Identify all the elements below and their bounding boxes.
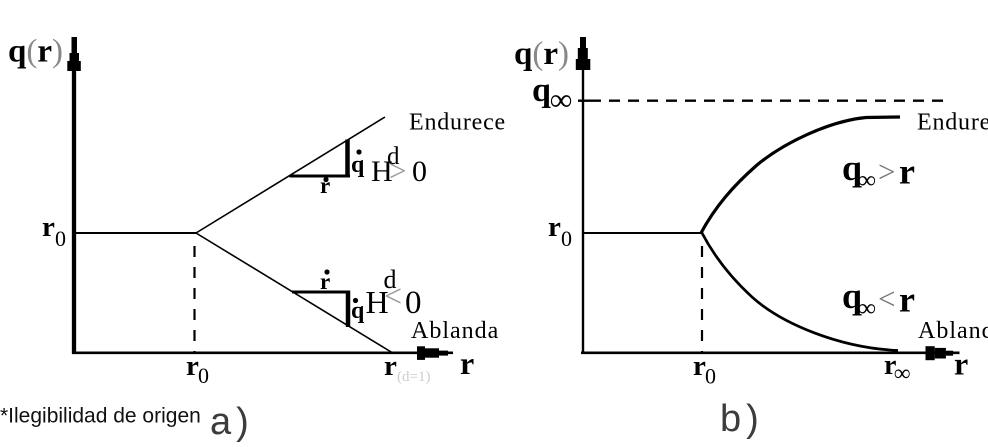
svg-text:>: > [878,154,895,189]
svg-text:0: 0 [405,285,422,321]
x-axis (plot a) [72,351,453,354]
x-axis arrowhead (plot b) [926,346,935,360]
svg-text:0: 0 [198,363,209,388]
r0 horizontal line (plot a) [76,232,197,234]
svg-text:r: r [320,173,330,198]
svg-text:<: < [384,278,402,314]
y-axis arrowhead (plot a) [72,37,78,55]
softening decay curve (plot b) [702,233,898,351]
svg-text:q(r): q(r) [514,36,569,72]
svg-text:q(r): q(r) [8,34,63,70]
slope triangle lower: vertical leg (plot a) [346,291,351,328]
svg-text:Endurece: Endurece [917,110,988,136]
svg-text:<: < [878,281,895,316]
y-axis arrowhead (plot b) [580,37,586,49]
x-axis (plot b) [581,351,960,354]
svg-text:r: r [899,280,915,320]
svg-text:r: r [42,211,55,243]
svg-text:r: r [548,211,561,243]
slope triangle lower: horizontal leg (plot a) [292,291,350,294]
svg-text:q: q [532,72,551,109]
svg-text:0: 0 [55,226,66,251]
hardening branch line (plot a) [196,117,385,233]
svg-text:q: q [351,152,365,178]
y-axis (plot b) [582,40,584,354]
svg-text:∞: ∞ [858,295,876,322]
svg-text:b): b) [720,398,764,440]
svg-text:r: r [899,152,915,192]
svg-text:Endurece: Endurece [409,110,506,136]
svg-text:r: r [954,346,968,382]
dashed vertical at r0 (plot b) [701,246,703,352]
svg-text:>: > [389,153,406,188]
slope triangle upper: horizontal leg (plot a) [290,175,351,178]
svg-text:∞: ∞ [894,361,910,386]
svg-text:r: r [384,350,397,382]
svg-text:∞: ∞ [858,167,876,194]
r0 horizontal line (plot b) [584,232,702,234]
hardening saturation curve (plot b) [701,117,900,233]
svg-text:∞: ∞ [550,82,572,117]
tick at q-infinity on y-axis (plot b) [578,99,590,101]
svg-text:*Ilegibilidad de origen: *Ilegibilidad de origen [0,405,201,428]
svg-text:r: r [460,345,474,381]
svg-text:0: 0 [412,155,427,188]
y-axis (plot a) [72,40,76,354]
svg-text:a): a) [210,401,254,443]
x-axis arrowhead (plot a) [417,346,425,360]
svg-text:q: q [351,298,365,324]
svg-text:Ablanda: Ablanda [918,318,988,344]
dashed horizontal q-infinity line (plot b) [590,99,943,101]
svg-text:(d=1): (d=1) [397,369,430,385]
svg-text:Ablanda: Ablanda [411,318,499,344]
svg-text:0: 0 [561,226,572,251]
slope triangle upper: vertical leg (plot a) [345,140,350,178]
softening branch line (plot a) [196,233,392,353]
svg-text:0: 0 [705,364,716,389]
dashed vertical at r0 (plot a) [193,246,195,352]
